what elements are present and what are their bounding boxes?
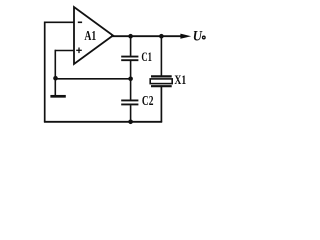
wire: bottom rail <box>44 121 162 123</box>
wire: op-amp output to arrow <box>111 35 182 37</box>
op-amp non-inverting input plus sign <box>76 48 82 54</box>
crystal X1 <box>150 36 186 122</box>
wire: plus-input vertical down to ground <box>54 50 56 97</box>
node dot: C2 to bottom rail <box>128 120 133 125</box>
C1 bottom lead <box>130 61 132 79</box>
svg-text:A1: A1 <box>84 28 96 43</box>
C2 bottom lead <box>130 105 132 122</box>
capacitor C1 <box>121 36 152 79</box>
wire: non-inverting input to left <box>55 50 74 52</box>
node dot: C1/C2 junction <box>128 77 133 82</box>
op-amp inverting input minus sign <box>78 21 82 23</box>
node junction dot on ground branch <box>53 76 58 81</box>
output arrowhead <box>180 34 191 39</box>
X1 bottom lead <box>160 86 162 122</box>
svg-text:U: U <box>193 29 203 45</box>
X1 body rectangle <box>150 79 172 84</box>
C1 bottom plate <box>121 59 138 61</box>
wire: inverting input to left <box>45 21 75 23</box>
svg-text:C2: C2 <box>142 93 154 108</box>
C2 top lead <box>130 79 132 100</box>
X1 bottom plate <box>151 85 172 87</box>
C2 bottom plate <box>121 103 138 105</box>
X1 top lead <box>160 36 162 76</box>
wire: mid node horizontal (C1/C2 junction to ground branch) <box>55 78 130 80</box>
svg-text:C1: C1 <box>141 50 152 64</box>
X1 top plate <box>151 75 172 77</box>
C2 top plate <box>121 99 138 101</box>
svg-text:X1: X1 <box>174 73 186 87</box>
node dot: output to crystal branch <box>159 34 164 39</box>
capacitor C2 <box>121 79 154 122</box>
ground bar <box>50 95 65 98</box>
C1 top plate <box>121 56 138 58</box>
wire: left feedback vertical <box>44 22 46 122</box>
op-amp A1 <box>74 7 113 64</box>
C1 top lead <box>130 36 132 56</box>
op-amp A1 triangle <box>74 7 113 64</box>
node dot: output to C1 branch <box>128 34 133 39</box>
